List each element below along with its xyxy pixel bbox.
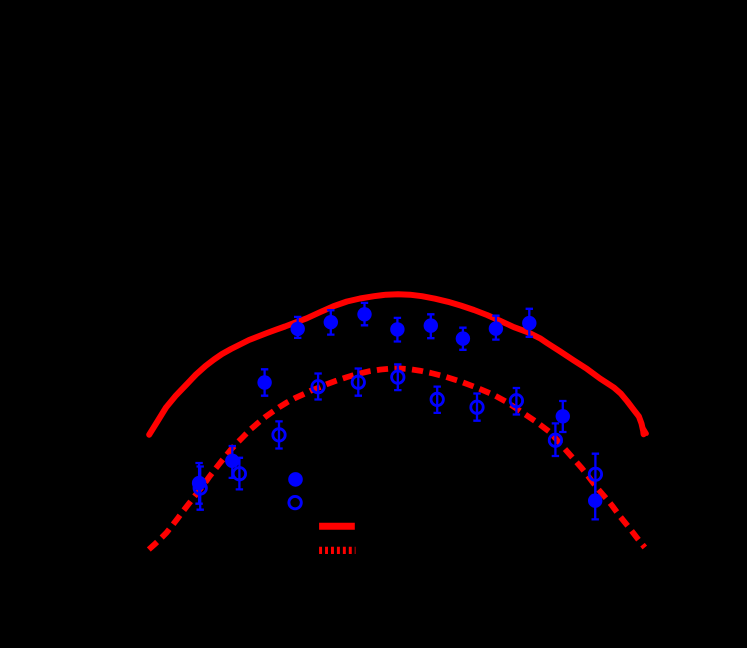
legend open marker: [289, 496, 301, 508]
open blue data points: [194, 482, 206, 494]
blue error bars: [195, 303, 599, 520]
filled blue data points: [192, 476, 206, 490]
legend solid line: [319, 523, 355, 530]
solid red model curve: [149, 294, 643, 435]
dashed red model curve: [149, 369, 645, 550]
solid curve end hook: [644, 429, 647, 434]
legend filled marker: [288, 472, 303, 487]
legend dashed line: [319, 547, 355, 554]
